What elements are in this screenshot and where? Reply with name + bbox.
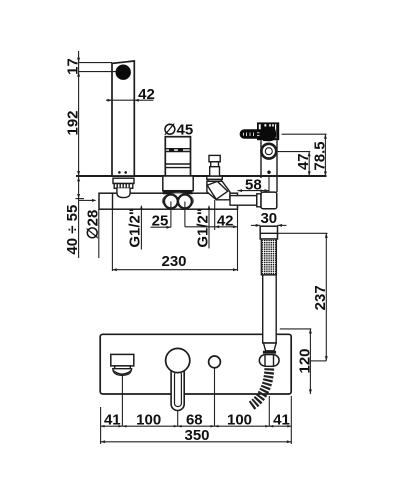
plan handle circle	[166, 348, 190, 372]
svg-text:192: 192	[64, 110, 81, 135]
set screws on spout base	[118, 171, 121, 174]
dim 17/192 vertical line	[78, 51, 80, 258]
elbow	[261, 192, 277, 209]
deck line	[76, 175, 327, 177]
svg-text:42: 42	[138, 86, 155, 103]
svg-text:G1/2": G1/2"	[127, 208, 144, 248]
dim 120	[280, 328, 312, 330]
svg-text:47: 47	[295, 153, 312, 170]
spout column	[112, 61, 134, 176]
svg-text:41: 41	[104, 412, 121, 429]
pipe nut	[257, 194, 261, 207]
dot on holder axis	[267, 171, 270, 174]
mixer dark band	[163, 191, 193, 195]
dim 42 top	[106, 99, 154, 101]
svg-text:120: 120	[296, 348, 313, 373]
spout outlet black circle	[116, 65, 131, 80]
G1/2 leader right	[208, 206, 210, 248]
G1/2 nut circles	[164, 195, 178, 209]
svg-text:40 ÷ 55: 40 ÷ 55	[64, 205, 81, 255]
svg-text:42: 42	[217, 213, 234, 230]
diverter knob	[209, 155, 220, 161]
diverter body	[207, 181, 230, 200]
segment dim line	[101, 425, 292, 427]
svg-text:230: 230	[161, 253, 186, 270]
svg-text:17: 17	[64, 58, 81, 75]
plan diverter circle	[209, 356, 221, 368]
spout shank U	[117, 188, 130, 197]
swivel ball	[259, 355, 270, 366]
svg-text:25: 25	[152, 213, 169, 230]
dim 230	[111, 210, 113, 272]
dim 58	[238, 190, 270, 192]
shower holder bracket	[257, 122, 279, 140]
dimension texts	[64, 58, 329, 444]
handshower resting in holder (black pill)	[240, 129, 274, 139]
svg-text:∅45: ∅45	[163, 122, 193, 139]
svg-text:G1/2": G1/2"	[194, 208, 211, 248]
svg-text:68: 68	[186, 412, 203, 429]
svg-text:237: 237	[312, 285, 329, 310]
connector taper	[264, 343, 277, 351]
plan centerlines	[121, 375, 123, 427]
Ø28 vertical line (manifold edge extension)	[98, 209, 100, 258]
diverter under-deck flange	[207, 176, 223, 179]
mixer base block	[163, 176, 193, 191]
dim 25	[170, 201, 172, 227]
holder ring	[261, 144, 276, 159]
G1/2 leader left	[140, 206, 142, 250]
plan ext ticks	[100, 407, 102, 444]
dim Ø28 leader	[79, 199, 95, 201]
svg-text:100: 100	[136, 412, 161, 429]
plan spout	[111, 354, 134, 366]
mixer cartridge cylinder	[165, 137, 190, 176]
dim 78.5	[282, 133, 327, 135]
svg-text:350: 350	[184, 427, 209, 444]
plan handle lever	[171, 362, 184, 411]
dimension lines group	[76, 51, 328, 444]
diverter diamond	[207, 181, 228, 199]
dim 237	[278, 232, 328, 234]
pipe to elbow	[230, 196, 257, 206]
holder column	[260, 140, 262, 192]
dim 42 lower	[184, 201, 186, 226]
handshower hatched grip	[261, 239, 276, 275]
svg-text:30: 30	[260, 210, 277, 227]
connector dark band	[263, 351, 276, 354]
handshower head below deck	[260, 226, 277, 239]
dim 40÷55 tick	[76, 198, 85, 200]
svg-text:∅28: ∅28	[84, 210, 101, 240]
hose	[251, 368, 269, 406]
dim 30	[251, 224, 260, 226]
arrowheads	[77, 58, 328, 444]
plan view rectangle	[100, 334, 291, 394]
svg-text:58: 58	[245, 177, 262, 194]
under-deck manifold	[99, 193, 238, 209]
svg-text:78.5: 78.5	[312, 141, 329, 170]
dim 47	[278, 151, 311, 153]
spout shank nut comb	[114, 184, 133, 189]
manifold ellipse behind nuts	[162, 193, 193, 209]
spout shank flange	[113, 178, 134, 183]
handshower handle	[263, 275, 277, 343]
halo for 58 text	[243, 178, 264, 190]
350 dim line	[101, 441, 292, 443]
svg-text:41: 41	[273, 412, 290, 429]
svg-text:100: 100	[227, 412, 252, 429]
